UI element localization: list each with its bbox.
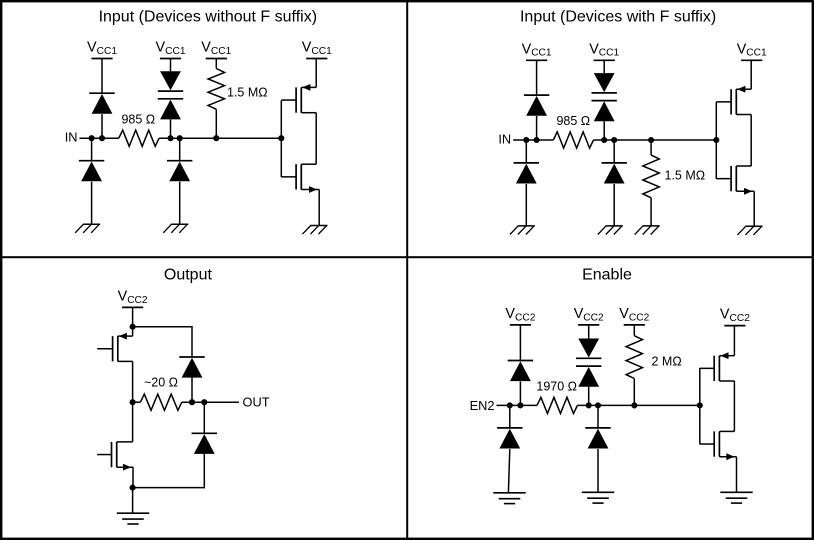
- wire OUT node to resistor: [133, 401, 141, 403]
- svg-text:1.5 MΩ: 1.5 MΩ: [665, 169, 706, 183]
- resistor 985 Ohm (series input): [119, 130, 159, 146]
- svg-text:OUT: OUT: [243, 394, 270, 409]
- wire VCC1 to upper ESD diode cathode: [101, 59, 103, 94]
- wire VCC2 to supply node: [132, 307, 134, 326]
- wire VCC1 to clamp stack (F): [603, 60, 605, 73]
- wire enable clamp stack to node: [588, 387, 590, 406]
- junction enable gate node: [697, 402, 703, 408]
- ground (enable inverter): [720, 492, 752, 503]
- wire lower clamp diode anode to ground rail: [133, 453, 205, 488]
- svg-text:Input (Devices without F suffi: Input (Devices without F suffix): [99, 9, 317, 26]
- ground (F middle ESD branch): [598, 226, 623, 235]
- clamp diode OUT to VCC2: [179, 357, 204, 378]
- svg-text:985 Ω: 985 Ω: [121, 112, 155, 126]
- junction gate node (F): [713, 137, 719, 143]
- junction IN node upper diode tap (F): [534, 137, 540, 143]
- VCC2 supply (output stage): [118, 288, 148, 307]
- resistor 1.5 MOhm pullup: [208, 69, 224, 110]
- wire VCC1 to PMOS source: [315, 59, 317, 88]
- ground (F input inverter): [738, 226, 763, 235]
- wire lower ESD diode to ground (F): [525, 184, 527, 226]
- svg-text:Input (Devices with F suffix): Input (Devices with F suffix): [520, 9, 716, 26]
- junction middle node (clamp stack tap): [167, 135, 173, 141]
- junction supply node: [130, 324, 136, 330]
- wire middle lower diode anode to ground: [179, 182, 181, 224]
- wire inverter drain node (F): [750, 115, 752, 167]
- wire upper ESD diode to EN2 node: [519, 381, 521, 405]
- wire VCC1 to clamp stack: [170, 59, 172, 72]
- junction enable middle node clamp tap: [586, 402, 592, 408]
- junction enable pullup tap: [631, 402, 637, 408]
- ESD diode GND to IN (left branch): [79, 161, 104, 182]
- wire resistor to middle junction: [159, 137, 281, 139]
- wire enable inverter drain node: [733, 381, 735, 431]
- wire lower ESD diode anode to ground (slanted): [508, 449, 509, 493]
- wire enable middle lower diode to ground: [597, 449, 599, 492]
- junction OUT node clamp tap: [189, 399, 195, 405]
- svg-text:Enable: Enable: [582, 267, 632, 284]
- wire NMOS source to ground (enable): [736, 457, 738, 493]
- VCC1 supply (clamp stack): [156, 40, 186, 59]
- wire upper ESD diode anode to IN node: [101, 114, 103, 138]
- VCC1 supply (clamp stack F): [589, 41, 619, 60]
- wire VCC1 to pullup resistor: [215, 59, 217, 69]
- NMOS transistor (input inverter): [281, 164, 319, 193]
- wire IN node to lower ESD diode (F): [525, 140, 527, 163]
- VCC2 supply (enable pullup): [619, 306, 649, 325]
- ground (output stage): [117, 513, 149, 524]
- wire pullup resistor to node: [215, 109, 217, 138]
- wire gate bus (F): [715, 102, 717, 179]
- wire NMOS source to ground (F): [753, 191, 755, 226]
- junction OUT node left: [130, 399, 136, 405]
- wire upper clamp diode anode to OUT node: [191, 378, 193, 403]
- wire enable node to lower ESD diode (middle): [597, 405, 599, 428]
- ESD diode IN to VCC1 (F left): [524, 95, 549, 116]
- wire pulldown resistor to ground (F): [650, 198, 652, 226]
- clamp diode VCC1 side (F pair top): [592, 73, 617, 93]
- wire supply node to PMOS source: [132, 327, 134, 336]
- wire IN to first junction (F): [513, 139, 553, 141]
- junction gate node: [278, 135, 284, 141]
- junction on IN node (lower diode tap): [89, 135, 95, 141]
- VCC2 supply (enable clamp stack): [574, 306, 604, 325]
- ESD diode GND to middle node (F): [602, 163, 627, 184]
- wire PMOS drain to OUT node: [132, 361, 134, 402]
- NMOS transistor (F input inverter): [716, 166, 754, 195]
- ESD diode GND to middle node: [167, 161, 192, 182]
- wire supply node to upper clamp diode: [133, 327, 192, 357]
- wire middle node to lower ESD diode (F middle): [613, 140, 615, 163]
- svg-text:IN: IN: [65, 130, 78, 145]
- junction pullup tap: [213, 135, 219, 141]
- ESD diode IN to VCC1 (left branch): [89, 93, 114, 114]
- VCC1 supply (left ESD branch F): [522, 41, 552, 60]
- wire IN to first junction: [80, 137, 119, 139]
- junction enable middle node lower diode tap: [595, 402, 601, 408]
- wire clamp stack to middle node: [170, 119, 172, 138]
- ESD diode GND to enable middle node: [585, 428, 610, 449]
- clamp diode node side (back-to-back pair bottom): [158, 99, 183, 120]
- wire IN node to lower ESD diode cathode: [91, 138, 93, 161]
- NMOS transistor (output driver): [97, 442, 133, 471]
- VCC1 supply (inverter): [302, 40, 332, 59]
- clamp diode VCC1 side (back-to-back pair top): [158, 71, 183, 91]
- wire inverter drain node: [315, 113, 317, 165]
- junction pulldown tap (F): [648, 137, 654, 143]
- ground (enable left ESD branch): [493, 493, 525, 504]
- wire clamp stack to middle node (F): [603, 121, 605, 140]
- PMOS transistor (output driver): [97, 333, 132, 362]
- svg-text:Output: Output: [164, 267, 213, 284]
- wire ground node to ground symbol: [132, 488, 134, 514]
- clamp diode VCC2 side (enable pair top): [576, 339, 601, 359]
- wire node to pulldown resistor (F): [650, 140, 652, 155]
- ground (F left ESD branch): [510, 226, 535, 235]
- wire resistor to enable gate node: [577, 404, 699, 406]
- PMOS transistor (F input inverter): [716, 86, 751, 115]
- junction ground node: [130, 485, 136, 491]
- wire middle lower diode to ground (F): [613, 184, 615, 226]
- wire upper ESD diode to IN node (F): [536, 116, 538, 140]
- svg-text:IN: IN: [498, 131, 511, 146]
- wire lower ESD diode anode to ground: [91, 182, 93, 224]
- wire VCC1 to upper ESD diode (F): [536, 60, 538, 95]
- wire VCC2 to enable clamp stack: [588, 325, 590, 339]
- junction OUT node lower diode tap: [201, 399, 207, 405]
- ground (left ESD branch): [75, 224, 100, 233]
- VCC2 supply (enable inverter): [720, 307, 750, 326]
- ground (enable middle ESD branch): [582, 492, 614, 503]
- svg-text:985 Ω: 985 Ω: [556, 114, 590, 128]
- PMOS transistor (enable inverter): [700, 352, 735, 381]
- junction middle node (lower diode tap): [177, 135, 183, 141]
- junction middle node lower diode tap (F): [611, 137, 617, 143]
- resistor ~20 Ohm (output series): [140, 394, 181, 410]
- PMOS transistor (input inverter): [281, 84, 316, 113]
- ESD diode GND to IN (F left): [514, 163, 539, 184]
- VCC2 supply (left ESD branch enable): [505, 306, 535, 325]
- wire VCC1 to PMOS source (F): [750, 60, 752, 89]
- junction middle node clamp tap (F): [601, 137, 607, 143]
- NMOS transistor (enable inverter): [700, 431, 737, 460]
- ESD diode EN2 to VCC2: [508, 361, 533, 382]
- junction IN node lower diode tap (F): [523, 137, 529, 143]
- svg-text:EN2: EN2: [470, 398, 495, 413]
- clamp diode node side (F pair bottom): [592, 101, 617, 122]
- wire resistor to OUT junction: [182, 401, 239, 403]
- wire NMOS source to ground node: [132, 467, 134, 487]
- junction on IN node (upper diode tap): [99, 135, 105, 141]
- resistor 985 Ohm (F series input): [553, 132, 593, 148]
- wire VCC2 to upper ESD diode (enable): [519, 325, 521, 361]
- ground (middle ESD branch): [163, 224, 188, 233]
- resistor 2 MOhm pullup (enable): [626, 336, 642, 379]
- clamp diode GND to OUT: [192, 433, 217, 454]
- wire EN2 node to lower ESD diode: [509, 405, 511, 428]
- ground (F pulldown): [635, 226, 660, 235]
- VCC1 supply (pullup resistor): [201, 40, 231, 59]
- clamp diode node side (enable pair bottom): [576, 366, 601, 387]
- svg-text:2 MΩ: 2 MΩ: [652, 354, 682, 368]
- VCC1 supply (left ESD branch): [87, 40, 117, 59]
- wire enable gate bus: [699, 368, 701, 444]
- svg-text:~20 Ω: ~20 Ω: [144, 376, 178, 390]
- wire VCC2 to 2 MOhm resistor: [633, 325, 635, 336]
- resistor 1970 Ohm (enable series): [537, 397, 577, 413]
- svg-text:1970 Ω: 1970 Ω: [536, 379, 577, 393]
- wire resistor to gate node (F): [594, 139, 717, 141]
- svg-text:1.5 MΩ: 1.5 MΩ: [227, 85, 268, 99]
- VCC1 supply (inverter F): [737, 41, 767, 60]
- ESD diode GND to EN2: [497, 428, 522, 449]
- wire VCC2 to PMOS source (enable): [733, 326, 735, 356]
- ground (input inverter): [303, 226, 328, 235]
- junction EN2 node lower diode tap: [507, 402, 513, 408]
- wire OUT node to NMOS drain: [132, 402, 134, 442]
- wire 2 MOhm resistor to node: [633, 379, 635, 406]
- wire gate bus: [280, 100, 282, 177]
- junction EN2 node upper diode tap: [517, 402, 523, 408]
- wire EN2 to first junction: [497, 404, 538, 406]
- wire OUT node to lower clamp diode: [203, 402, 205, 433]
- wire middle node to lower ESD diode (middle): [179, 138, 181, 161]
- wire NMOS source to ground: [318, 190, 320, 226]
- resistor 1.5 MOhm pulldown (F): [643, 155, 659, 198]
